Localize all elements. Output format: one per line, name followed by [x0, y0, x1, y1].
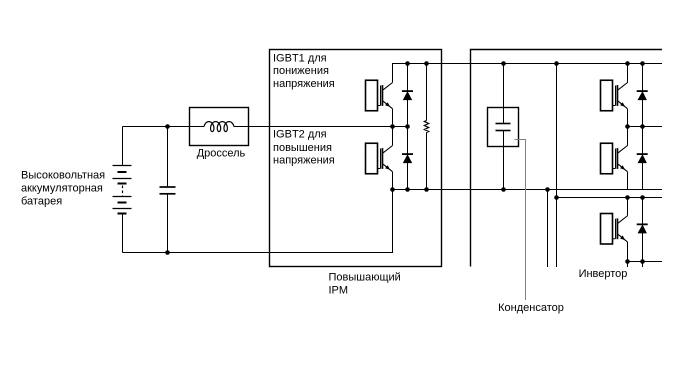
label: Повышающий IPM: [329, 272, 401, 297]
node: D5 second rail: [640, 195, 645, 200]
node: second row rail start: [554, 195, 559, 200]
svg-text:Высоковольтная: Высоковольтная: [21, 170, 105, 182]
svg-text:IGBT1 для: IGBT1 для: [273, 53, 327, 65]
svg-text:Повышающий: Повышающий: [329, 272, 401, 284]
diode D4: [637, 127, 648, 190]
node: Q2 emitter bottom rail: [390, 187, 395, 192]
diode D5: [637, 198, 648, 268]
wire: inductor output to IGBT midpoint node: [234, 126, 408, 128]
battery BT1 Высоковольтная аккумуляторная батарея: [113, 127, 132, 253]
wire: positive DC rail y=63.5: [393, 64, 663, 83]
wire: bus vertical from negative rail down: [547, 190, 549, 268]
svg-text:аккумуляторная: аккумуляторная: [21, 183, 103, 195]
wire: phase output line row3: [628, 261, 663, 263]
node: D1 top rail: [405, 61, 410, 66]
svg-text:Дроссель: Дроссель: [197, 148, 246, 160]
node: C2 top rail: [501, 61, 506, 66]
node: R1 bottom rail: [424, 187, 429, 192]
node: C2 bottom rail: [501, 187, 506, 192]
label: IGBT1 для понижения напряжения: [273, 53, 335, 91]
node: Q3/Q4 phase junction: [625, 124, 630, 129]
node: Q5 emitter row3 junction: [625, 259, 630, 264]
capacitor C2 (Конденсатор): [496, 64, 511, 190]
svg-text:напряжения: напряжения: [273, 155, 335, 167]
label: Высоковольтная аккумуляторная батарея: [21, 170, 105, 208]
node: Q5 collector second rail: [625, 195, 630, 200]
boost IPM box (Повышающий IPM): [270, 50, 442, 267]
transistor Q2 (повышения): [366, 127, 393, 190]
node: D5 row3 junction: [640, 259, 645, 264]
node: midpoint junction Q1/Q2: [390, 124, 395, 129]
transistor Q3 (inverter row1): [601, 64, 628, 127]
wire: battery negative bottom: [123, 190, 393, 253]
diode D1: [402, 64, 413, 127]
svg-text:IGBT2 для: IGBT2 для: [273, 129, 327, 141]
transistor Q1 (понижения): [366, 64, 393, 127]
svg-text:повышения: повышения: [273, 142, 332, 154]
capacitor C1 (filter, across battery): [160, 127, 176, 253]
node: Q3 collector top rail: [625, 61, 630, 66]
node: D2 bottom rail: [405, 187, 410, 192]
svg-text:Инвертор: Инвертор: [579, 268, 628, 280]
transistor Q4 (inverter row2): [601, 127, 628, 190]
wire: negative DC rail y=189.5: [393, 189, 663, 191]
diode D3: [637, 64, 648, 127]
transistor Q5 (inverter row3): [601, 198, 628, 268]
node: D3 top rail: [640, 61, 645, 66]
resistor R1 (discharge): [424, 64, 428, 190]
svg-text:IPM: IPM: [329, 285, 349, 297]
node: R1 top rail: [424, 61, 429, 66]
node: bus tap on positive rail: [554, 61, 559, 66]
node: midpoint/D1-D2 junction: [405, 124, 410, 129]
wire: battery positive top to inductor: [123, 126, 205, 128]
inductor L1 coil: [204, 122, 234, 132]
capacitor box: [488, 108, 519, 147]
wire: phase output line row1: [628, 126, 663, 128]
svg-text:батарея: батарея: [21, 196, 62, 208]
svg-text:Конденсатор: Конденсатор: [498, 302, 564, 314]
svg-text:понижения: понижения: [273, 65, 329, 77]
inductor box (Дроссель): [190, 108, 249, 146]
svg-text:напряжения: напряжения: [273, 78, 335, 90]
label: IGBT2 для повышения напряжения: [273, 129, 335, 167]
node: battery+/C1 junction: [165, 124, 170, 129]
node: battery-/C1 junction: [165, 250, 170, 255]
diode D2: [402, 127, 413, 190]
node: D3/D4 phase junction: [640, 124, 645, 129]
wire: bus vertical from positive rail down: [556, 64, 558, 268]
node: bus tap on negative rail: [545, 187, 550, 192]
leader line to Конденсатор label: [515, 140, 526, 301]
wire: second row positive rail y=197.5: [557, 197, 663, 199]
inverter assembly box outline: [471, 50, 663, 267]
